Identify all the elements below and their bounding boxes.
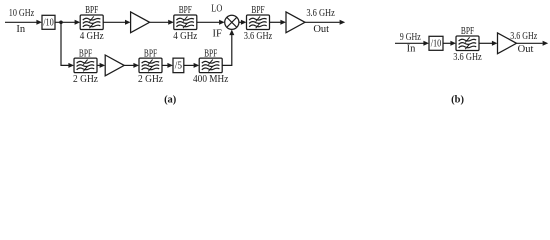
svg-text:3.6 GHz: 3.6 GHz [306,8,335,19]
svg-text:4 GHz: 4 GHz [80,31,104,42]
band-pass filter BPF 3.6 GHz (b) [453,26,482,63]
amplifier A2 (output, a) [286,12,305,33]
band-pass filter BPF 400 MHz [193,48,229,85]
svg-text:In: In [407,44,416,55]
svg-text:/5: /5 [175,61,182,72]
wire: BPF 2 GHz to amplifier A3 [97,63,105,68]
mixer M1 (circle with X) [225,15,239,29]
divider /10 (a) [42,15,55,29]
svg-text:3.6 GHz: 3.6 GHz [453,52,482,63]
svg-text:400 MHz: 400 MHz [193,74,229,85]
wire: 9 GHz input line (b) [395,41,429,46]
svg-text:10 GHz: 10 GHz [9,8,35,19]
svg-text:In: In [16,24,25,35]
wire: BPF 3.6 GHz to amplifier A2 [270,20,287,25]
band-pass filter BPF 2 GHz (second, lower path) [138,48,163,85]
divider /10 (b) [429,36,443,50]
svg-text:3.6 GHz: 3.6 GHz [510,31,537,42]
amplifier A3 (lower path) [105,55,124,76]
amplifier A1 (top path) [131,12,150,33]
svg-text:Out: Out [518,44,534,55]
svg-text:BPF: BPF [144,48,157,59]
svg-text:4 GHz: 4 GHz [173,31,197,42]
wire: BPF to mixer LO port [197,20,225,25]
wire: BPF 2 GHz to divider /5 [162,63,173,68]
svg-text:LO: LO [211,4,222,15]
wire: BPF 400 MHz up to mixer IF port [222,30,234,66]
svg-text:2 GHz: 2 GHz [138,74,163,85]
svg-text:/10: /10 [43,18,54,29]
wire: /10 to BPF 3.6 GHz (b) [443,41,456,46]
divider /5 (lower path) [173,58,184,73]
svg-text:BPF: BPF [85,5,98,16]
svg-text:(a): (a) [164,94,177,105]
svg-text:9 GHz: 9 GHz [400,32,421,43]
wire: mixer to BPF 3.6 GHz [239,20,247,25]
wire: 10 GHz input line [5,20,42,25]
wire: BPF 4 GHz to amplifier A1 [103,20,130,25]
band-pass filter BPF 4 GHz (second, top path) [173,5,197,42]
svg-text:BPF: BPF [204,48,217,59]
svg-text:BPF: BPF [79,48,92,59]
svg-text:2 GHz: 2 GHz [73,74,98,85]
svg-text:BPF: BPF [461,26,474,37]
svg-text:(b): (b) [451,94,464,105]
band-pass filter BPF 4 GHz (first, top path) [80,5,104,42]
wire: A3 to BPF 2 GHz (second) [124,63,139,68]
band-pass filter BPF 3.6 GHz (top path) [244,5,273,42]
band-pass filter BPF 2 GHz (first, lower path) [73,48,98,85]
wire: 3.6 GHz output line (b) [517,41,549,46]
wire: A1 to BPF 4 GHz (second) [150,20,174,25]
wire: 3.6 GHz output line (a) [305,20,345,25]
svg-text:BPF: BPF [251,5,264,16]
svg-text:/10: /10 [431,39,442,50]
wire: junction down to lower path [61,22,74,68]
svg-text:3.6 GHz: 3.6 GHz [244,31,273,42]
svg-text:IF: IF [213,29,222,40]
wire: BPF to amplifier A4 (b) [479,41,498,46]
amplifier A4 (b) [498,33,517,54]
wire: /5 to BPF 400 MHz [184,63,199,68]
svg-text:BPF: BPF [179,5,192,16]
wire: /10 to BPF 4 GHz [55,20,80,25]
svg-text:Out: Out [313,24,329,35]
node: junction after /10 [59,21,63,25]
